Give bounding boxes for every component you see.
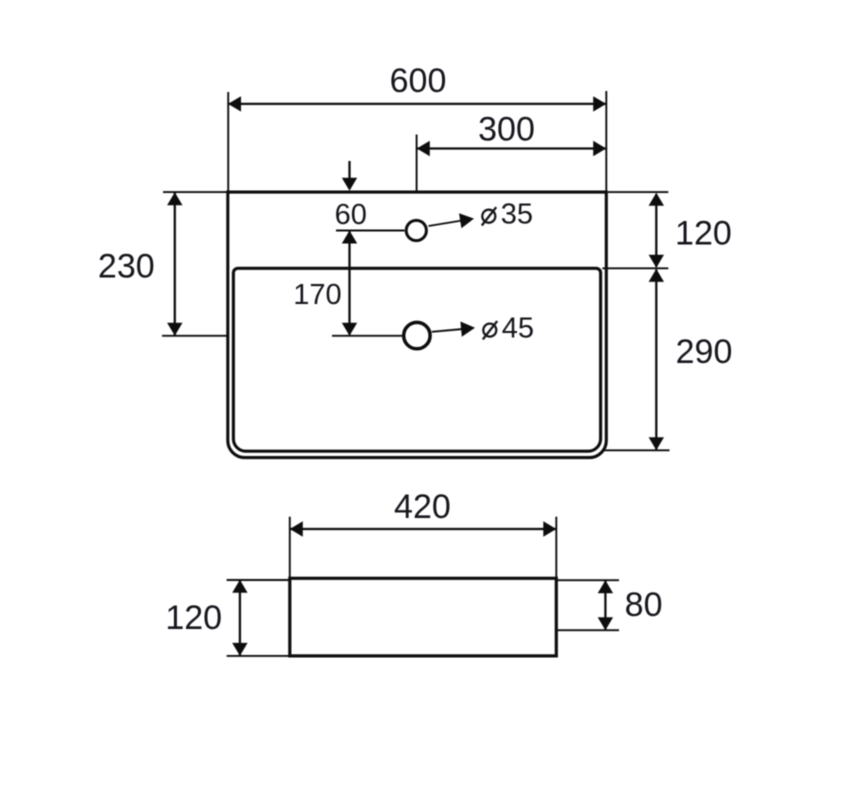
dimension 80: bottom extension line	[557, 629, 619, 631]
dimension 290: bottom arrowhead	[649, 437, 664, 450]
leader line for ø35	[429, 221, 463, 227]
svg-text:35: 35	[501, 199, 533, 231]
dimension 600: right arrowhead	[593, 96, 606, 111]
dimension 120: top arrowhead	[649, 193, 664, 206]
dimension 600: dimension line	[228, 103, 606, 105]
dimension 420: dimension line	[290, 528, 556, 530]
dimension 120: top extension line	[227, 579, 289, 581]
dimension 120: bottom extension line	[602, 267, 668, 269]
dimension 300: left extension line (faucet hole centerline)	[416, 135, 418, 191]
dimension 120: bottom arrowhead	[232, 643, 247, 656]
label ø45: diameter symbol	[483, 321, 497, 339]
top view: sink outer outline	[228, 192, 607, 458]
bottom view: pedestal rectangle	[290, 578, 557, 656]
dimension 230: bottom arrowhead	[167, 323, 182, 336]
faucet hole centerline	[336, 230, 405, 232]
dimension 120: bottom extension line	[227, 655, 289, 657]
svg-text:230: 230	[98, 248, 155, 286]
svg-text:600: 600	[390, 62, 447, 100]
dimension 420: left arrowhead	[290, 521, 303, 536]
dimension 80: dimension line	[604, 581, 606, 630]
dimension 230: dimension line	[174, 193, 176, 335]
dimension 80: top arrowhead	[598, 580, 613, 593]
svg-text:45: 45	[502, 312, 534, 344]
svg-text:120: 120	[165, 599, 222, 637]
dimension 120 (bottom left): dimension line	[239, 581, 241, 655]
dimension 600: left arrowhead	[228, 96, 241, 111]
svg-text:80: 80	[625, 586, 663, 624]
svg-text:60: 60	[335, 199, 367, 231]
drain hole centerline	[332, 335, 402, 337]
svg-text:170: 170	[293, 279, 341, 311]
svg-text:300: 300	[478, 111, 535, 149]
dimension 80: top extension line	[557, 579, 619, 581]
svg-text:420: 420	[394, 488, 451, 526]
dimension 420: right extension line	[555, 517, 557, 577]
dimension 300: dimension line	[417, 147, 606, 149]
dimension 290: bottom extension line	[604, 449, 670, 451]
top view: basin inner outline	[233, 268, 600, 451]
dimension 300: right arrowhead	[593, 141, 606, 156]
dimension 230: bottom extension line	[162, 335, 228, 337]
dimension 420: right arrowhead	[543, 521, 556, 536]
dimension 120: top arrowhead	[232, 580, 247, 593]
dimension 290: top arrowhead	[649, 269, 664, 282]
dimension 170: top arrowhead (shared with 60)	[342, 231, 357, 244]
label ø35: diameter symbol	[482, 207, 496, 225]
dimension 420: left extension line	[289, 517, 291, 577]
dimension 170: bottom arrowhead	[342, 323, 357, 336]
dimension 600: left extension line	[227, 92, 229, 191]
dimension 170: dimension line	[348, 232, 350, 335]
dimension 300: left arrowhead	[417, 141, 430, 156]
svg-text:120: 120	[675, 215, 732, 253]
dimension 230: top extension line	[163, 191, 228, 193]
dimension 60: outside arrow above top edge	[348, 161, 350, 179]
dimension 120: bottom arrowhead	[649, 255, 664, 268]
faucet hole ø35	[406, 220, 426, 240]
dimension 290: dimension line	[655, 270, 657, 450]
dimension 120: top extension line	[608, 191, 668, 193]
dimension 600: right extension line	[605, 91, 607, 191]
dimension 120 (right): dimension line	[655, 194, 657, 267]
drain hole ø45	[404, 322, 430, 348]
dimension 80: bottom arrowhead	[598, 617, 613, 630]
dimension 230: top arrowhead	[167, 192, 182, 205]
svg-text:290: 290	[676, 333, 733, 371]
leader line for ø45	[432, 329, 463, 332]
